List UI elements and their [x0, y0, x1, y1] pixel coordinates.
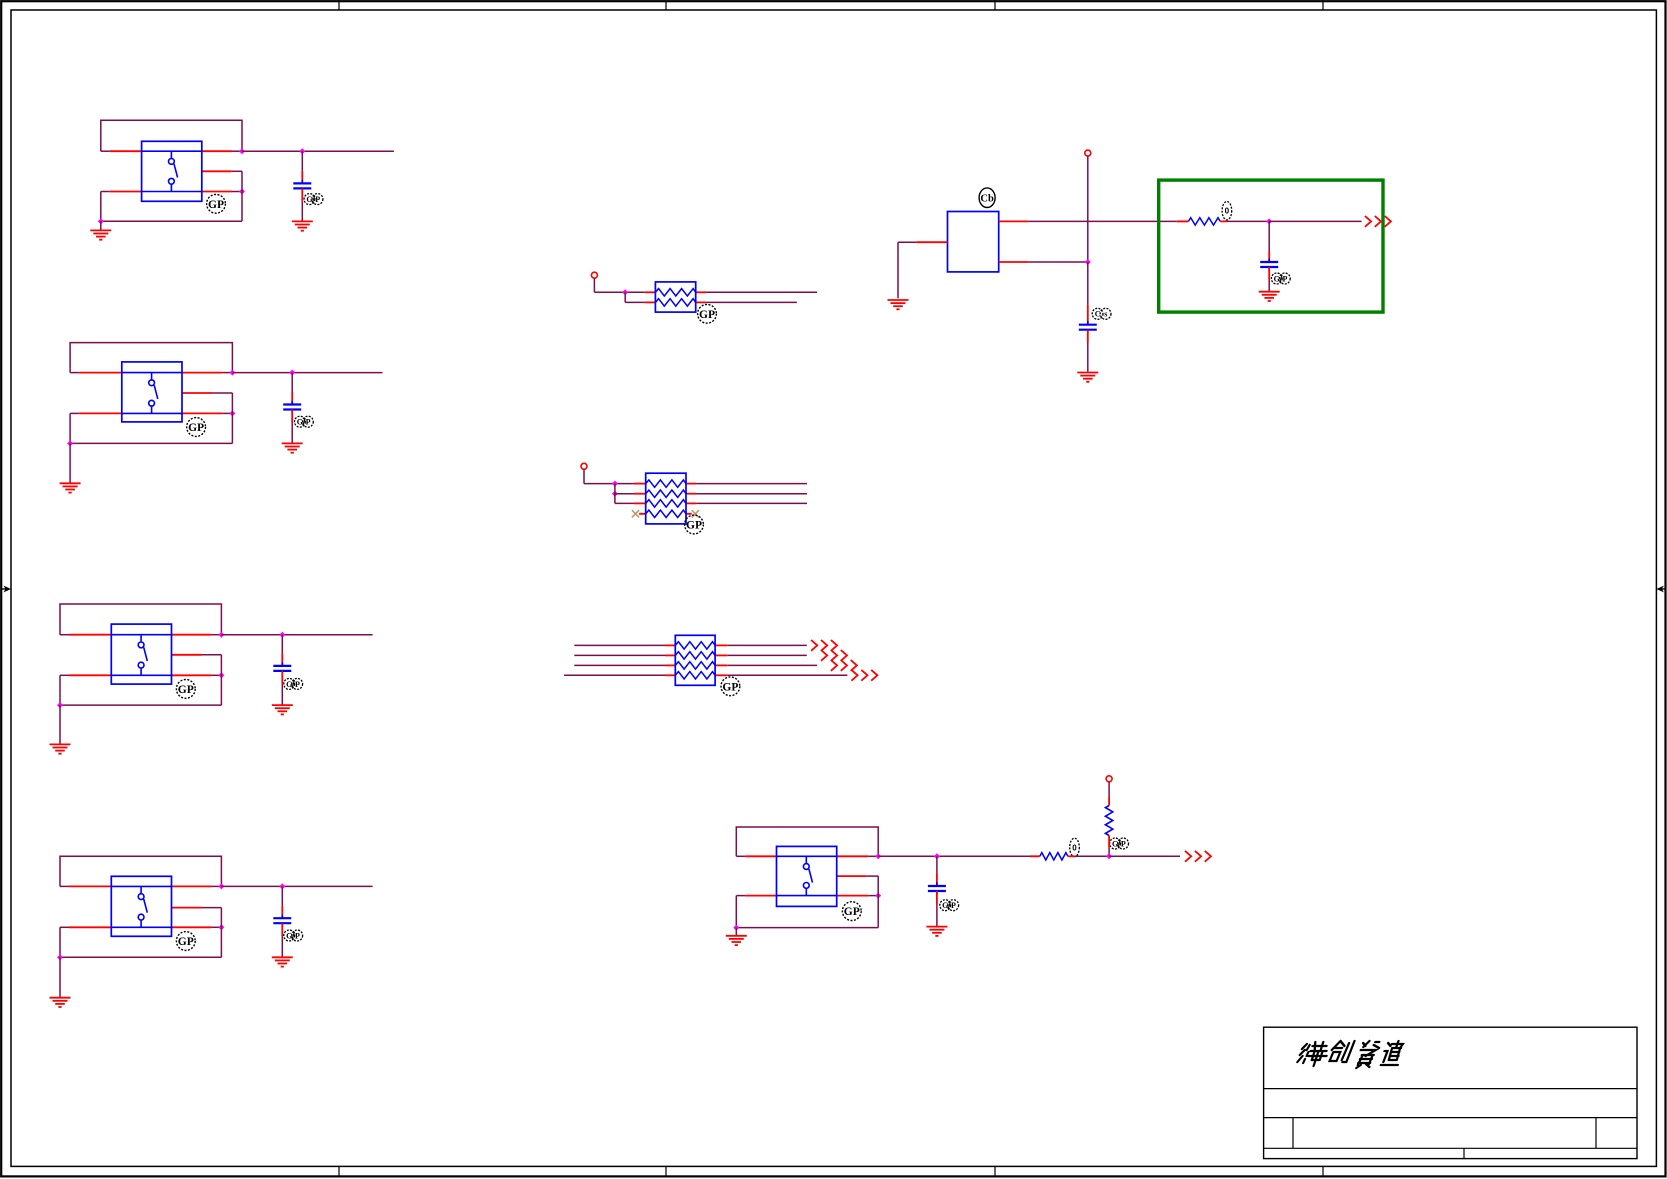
- capacitor C2: [283, 401, 301, 413]
- wire SW2 right loop vertical: [231, 393, 233, 443]
- ground for Cs: [1077, 373, 1098, 382]
- wire RP2 row2 left: [615, 493, 646, 495]
- label Cs: [1092, 308, 1111, 319]
- off-page arrows RP3 row4: [851, 670, 877, 681]
- svg-text:GP: GP: [208, 199, 224, 211]
- svg-text:GP: GP: [722, 681, 738, 693]
- wire R3 lower lead: [1108, 836, 1110, 857]
- svg-text:P: P: [1283, 274, 1288, 283]
- off-page arrows RP3 row3: [831, 660, 857, 671]
- off-page arrows output A: [1365, 216, 1391, 227]
- wire C6 upper lead: [936, 856, 938, 886]
- wire SW4 output net to C4: [221, 885, 372, 887]
- wire SW3 right loop vertical: [220, 655, 222, 705]
- label G/P for C1: [304, 194, 323, 205]
- ground for SW3: [50, 744, 71, 753]
- wire RP3 row4 left: [564, 674, 675, 676]
- wire SW2 pin2 net (bottom row): [70, 412, 232, 414]
- wire SW5 output net segment: [878, 855, 1030, 857]
- port P3 bubble: [1085, 150, 1091, 156]
- junction C2 node: [289, 370, 295, 376]
- wire C4 lower lead: [281, 923, 283, 957]
- svg-text:P: P: [315, 195, 320, 204]
- wire SW4 right loop vertical: [220, 908, 222, 958]
- svg-text:P: P: [306, 418, 311, 427]
- wire C3 upper lead: [281, 635, 283, 666]
- wire RP2 row3 right: [686, 502, 807, 504]
- title block column dividers: [1293, 1118, 1596, 1159]
- wire SW2 pin1 net (top row): [70, 372, 232, 374]
- wire U1 pin4 (top right) net: [999, 220, 1177, 222]
- wire SW2 left vertical to bottom: [69, 413, 71, 443]
- switch SW5 body box: [777, 846, 837, 906]
- junction C1 node: [299, 148, 305, 154]
- switch SW4 contact symbol: [138, 886, 147, 927]
- wire SW2 bottom return: [70, 442, 232, 444]
- wire SW5 bottom return: [736, 927, 878, 929]
- resistor R2: [1040, 853, 1068, 860]
- bottom border zone ticks: [339, 1166, 1323, 1176]
- switch SW3 top loop wire: [60, 604, 221, 635]
- wire RP2 row4 right stub: [686, 513, 692, 515]
- junction SW1 pin1/loop: [239, 148, 245, 154]
- label GP for RP2: [685, 515, 704, 534]
- wire RP2 row1 right: [686, 483, 807, 485]
- wire P3 vertical net: [1087, 156, 1089, 262]
- wire SW5 pin3 stub (middle row): [837, 875, 879, 877]
- label G/P for R3: [1110, 838, 1129, 849]
- wire SW3 pin1 net (top row): [60, 634, 221, 636]
- svg-text:GP: GP: [844, 906, 860, 918]
- label G/P for C4: [284, 930, 303, 941]
- wire SW1 pin2 net (bottom row): [101, 191, 242, 193]
- resistor pack RP3 box: [675, 635, 715, 685]
- svg-text:0: 0: [1225, 207, 1230, 216]
- capacitor C4: [273, 915, 291, 927]
- wire RP2 row4 left stub: [639, 513, 646, 515]
- svg-text:P: P: [295, 680, 300, 689]
- junction SW5 ground node: [733, 925, 739, 931]
- junction SW4 pin1/loop: [218, 883, 224, 889]
- switch SW5 contact symbol: [803, 856, 812, 895]
- company name text (Wistron InfoComm): [1296, 1041, 1403, 1068]
- title block row lines: [1264, 1089, 1637, 1149]
- off-page arrows RP3 row1: [811, 640, 837, 651]
- junction RP2 tap1: [612, 481, 618, 487]
- resistor RP3 element 3: [675, 662, 715, 669]
- wire U1 pin1 (left) to ground: [898, 242, 948, 298]
- label GP for SW5: [842, 902, 861, 921]
- wire SW3 pin3 stub (middle row): [172, 654, 222, 656]
- svg-text:G: G: [1112, 839, 1118, 848]
- wire RP2 row2 right: [686, 493, 807, 495]
- port P1 (no-connect bubble): [591, 272, 597, 278]
- wire C1 lower lead: [301, 188, 303, 221]
- wire SW5 pin2 net (bottom row): [736, 895, 878, 897]
- capacitor C6: [928, 882, 946, 894]
- resistor RP1 element 1: [655, 289, 695, 296]
- svg-text:G: G: [1274, 274, 1280, 283]
- label GP for RP3: [721, 677, 740, 696]
- svg-text:s: s: [1104, 310, 1107, 319]
- wire C5 upper lead: [1268, 221, 1270, 262]
- switch SW2 body box: [122, 362, 182, 422]
- label GP for SW4: [176, 932, 195, 951]
- label GP for SW1: [207, 194, 226, 213]
- wire RP3 row2 left: [574, 654, 675, 656]
- wire SW2 pin3 stub (middle row): [182, 392, 232, 394]
- resistor pack RP1 box: [655, 282, 695, 312]
- svg-text:G: G: [286, 680, 292, 689]
- label value oval for R2: [1070, 838, 1080, 856]
- resistor RP2 element 1: [646, 480, 686, 487]
- junction C4 node: [279, 883, 285, 889]
- junction SW2 bottom row: [229, 410, 235, 416]
- top border zone ticks: [339, 2, 1323, 11]
- capacitor C5: [1260, 258, 1278, 270]
- wire C3 lower lead: [281, 671, 283, 705]
- wire SW5 ground stem: [735, 928, 737, 936]
- wire SW3 bottom return: [60, 704, 221, 706]
- label G/P for C2: [295, 416, 314, 427]
- resistor RP3 element 2: [675, 652, 715, 659]
- junction C6 node: [934, 853, 940, 859]
- svg-text:G: G: [942, 901, 948, 910]
- svg-text:P: P: [951, 901, 956, 910]
- wire C2 upper lead: [291, 373, 293, 405]
- wire R1 left lead: [1177, 220, 1189, 222]
- no-connect X RP2 pin4 right: [692, 510, 699, 517]
- junction SW5 pin1/loop: [875, 853, 881, 859]
- wire output net (bottom): [1109, 855, 1180, 857]
- wire RP2 row1 left: [584, 483, 646, 485]
- resistor RP3 element 4: [675, 672, 715, 679]
- svg-text:GP: GP: [686, 520, 702, 532]
- ground for SW5: [726, 936, 747, 945]
- switch SW4 top loop wire: [60, 856, 221, 886]
- label Cb for U1: [979, 188, 995, 208]
- label GP for SW2: [187, 418, 206, 437]
- junction SW1 ground node: [98, 218, 104, 224]
- svg-text:G: G: [286, 931, 292, 940]
- port P2 (no-connect bubble): [581, 463, 587, 469]
- wire SW1 output net to C1: [242, 150, 394, 152]
- switch SW1 top loop wire: [101, 120, 242, 151]
- switch SW3 contact symbol: [138, 635, 147, 676]
- junction SW3 pin1/loop: [218, 632, 224, 638]
- resistor RP2 element 4: [646, 510, 686, 517]
- wire RP3 row2 right: [715, 654, 807, 656]
- ground for C5: [1259, 292, 1280, 301]
- capacitor Cs: [1079, 321, 1097, 333]
- port P4 bubble (pull-up supply): [1106, 776, 1112, 782]
- wire SW3 pin2 net (bottom row): [60, 674, 221, 676]
- svg-text:GP: GP: [188, 422, 204, 434]
- wire U1 pin3 (bottom right) net: [999, 261, 1088, 263]
- wire C1 upper lead: [301, 151, 303, 183]
- wire SW5 pin1 net (top row): [736, 855, 878, 857]
- capacitor C3: [273, 662, 291, 674]
- wire Cs lower lead: [1087, 330, 1089, 372]
- ground for C3: [272, 705, 293, 714]
- junction SW4 ground node: [57, 954, 63, 960]
- resistor RP3 element 1: [675, 642, 715, 649]
- label G/P for C5: [1271, 273, 1290, 284]
- wire P4 stem: [1108, 782, 1110, 806]
- wire RP1 row1 right: [696, 291, 817, 293]
- wire SW4 pin3 stub (middle row): [172, 907, 222, 909]
- svg-text:P: P: [295, 931, 300, 940]
- switch SW4 body box: [111, 876, 171, 936]
- wire RP1 tap vertical: [624, 292, 626, 302]
- wire C2 lower lead: [291, 410, 293, 444]
- switch SW1 body box: [142, 141, 202, 201]
- wire SW1 bottom return: [101, 220, 242, 222]
- ground for SW2: [60, 483, 81, 492]
- junction C3 node: [279, 632, 285, 638]
- component U1 body box: [948, 212, 999, 272]
- wire SW1 right loop vertical: [241, 171, 243, 221]
- wire R2 left lead: [1030, 855, 1040, 857]
- highlight box (green): [1159, 180, 1383, 312]
- wire C4 upper lead: [281, 886, 283, 918]
- wire RP3 row3 left: [574, 664, 675, 666]
- junction R2/R3 output node: [1106, 853, 1112, 859]
- junction SW3 bottom row: [218, 672, 224, 678]
- wire SW4 pin2 net (bottom row): [60, 926, 221, 928]
- wire RP2 tap vertical: [614, 484, 616, 504]
- wire SW1 pin1 net (top row): [101, 150, 242, 152]
- ground for U1 pin1: [888, 300, 909, 309]
- wire SW4 left vertical to bottom: [59, 927, 61, 957]
- junction P3 / U1 pin3: [1085, 259, 1091, 265]
- wire RP3 row1 left: [574, 644, 675, 646]
- wire SW1 left vertical to bottom: [100, 192, 102, 222]
- off-page arrows RP3 row2: [821, 650, 847, 661]
- resistor R3 (pull-up): [1105, 806, 1112, 836]
- right border center arrow: [1656, 586, 1665, 593]
- svg-text:GP: GP: [178, 936, 194, 948]
- junction RP2 tap2: [612, 491, 618, 497]
- wire SW3 left vertical to bottom: [59, 675, 61, 705]
- wire P2 stem: [583, 469, 585, 483]
- wire SW1 ground stem: [100, 221, 102, 230]
- resistor R1: [1188, 218, 1220, 225]
- wire RP3 row4 right: [715, 674, 847, 676]
- resistor RP1 element 2: [655, 299, 695, 306]
- switch SW2 contact symbol: [149, 373, 158, 414]
- junction SW4 bottom row: [218, 924, 224, 930]
- switch SW2 top loop wire: [70, 343, 232, 373]
- junction RP1 tap: [622, 289, 628, 295]
- wire RP3 row3 right: [715, 664, 817, 666]
- wire SW4 bottom return: [60, 956, 221, 958]
- wire RP1 row2 right: [696, 301, 797, 303]
- wire SW2 ground stem: [69, 443, 71, 483]
- label G/P for C6: [940, 900, 959, 911]
- svg-text:P: P: [1121, 839, 1126, 848]
- ground for C2: [282, 443, 303, 452]
- off-page arrows output B: [1185, 851, 1211, 862]
- wire SW3 ground stem: [59, 705, 61, 744]
- wire SW3 output net to C3: [221, 634, 372, 636]
- svg-text:GP: GP: [178, 684, 194, 696]
- wire output net (top right): [1269, 220, 1361, 222]
- junction SW2 ground node: [67, 440, 73, 446]
- svg-text:G: G: [306, 195, 312, 204]
- svg-text:G: G: [297, 418, 303, 427]
- wire Cs upper lead: [1087, 262, 1089, 325]
- svg-text:GP: GP: [699, 309, 715, 321]
- capacitor C1: [293, 180, 311, 192]
- title block outer frame: [1264, 1027, 1637, 1158]
- wire RP1 row1 left: [594, 291, 655, 293]
- ground for C1: [292, 221, 313, 230]
- ground for C4: [272, 957, 293, 966]
- wire SW2 output net to C2: [232, 372, 382, 374]
- switch SW5 top loop wire: [736, 827, 878, 856]
- ground for SW4: [50, 998, 71, 1007]
- wire SW5 left vertical to bottom: [735, 896, 737, 928]
- ground for C6: [926, 927, 947, 936]
- wire SW5 right loop vertical: [877, 876, 879, 928]
- resistor RP2 element 2: [646, 490, 686, 497]
- wire RP1 row2 left: [625, 301, 655, 303]
- wire R1 right lead: [1220, 220, 1269, 222]
- svg-text:0: 0: [1072, 843, 1077, 852]
- resistor RP2 element 3: [646, 500, 686, 507]
- wire SW4 ground stem: [59, 957, 61, 997]
- switch SW1 contact symbol: [169, 151, 178, 191]
- wire C6 lower lead: [936, 891, 938, 927]
- wire R2 right lead: [1068, 855, 1109, 857]
- no-connect X RP2 pin4 left: [632, 510, 639, 517]
- switch SW3 body box: [111, 624, 171, 684]
- wire C5 lower lead: [1268, 267, 1270, 292]
- junction SW3 ground node: [57, 702, 63, 708]
- label GP for RP1: [698, 304, 717, 323]
- junction SW1 bottom row: [239, 189, 245, 195]
- wire RP3 row1 right: [715, 644, 807, 646]
- label value oval for R1: [1222, 202, 1232, 220]
- label G/P for C3: [284, 678, 303, 689]
- wire P1 stem: [593, 278, 595, 292]
- svg-text:C: C: [1095, 310, 1101, 319]
- label GP for SW3: [176, 680, 195, 699]
- svg-text:Cb: Cb: [980, 194, 994, 205]
- junction SW2 pin1/loop: [229, 370, 235, 376]
- wire RP2 row3 left: [615, 502, 646, 504]
- wire SW4 pin1 net (top row): [60, 885, 221, 887]
- ground for SW1: [90, 230, 111, 239]
- wire SW1 pin3 stub (middle row): [202, 170, 242, 172]
- junction SW5 bottom row: [875, 893, 881, 899]
- junction C5 node: [1266, 218, 1272, 224]
- resistor pack RP2 box: [646, 473, 686, 524]
- left border center arrow: [2, 586, 11, 593]
